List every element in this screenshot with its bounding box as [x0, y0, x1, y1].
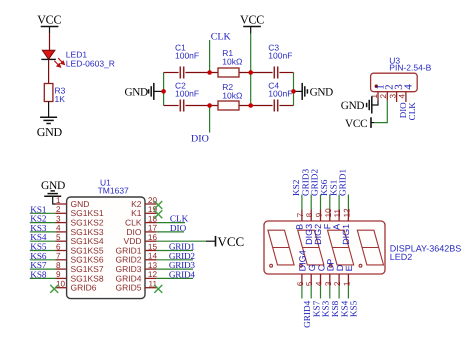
label R2 10kOhm [222, 82, 242, 101]
wire net KS8 (LED2 pin 3) [329, 286, 331, 299]
U1 pin 16 (VDD) stub [145, 240, 157, 242]
svg-text:DIG1: DIG1 [341, 224, 351, 245]
wire U1 pin1 to ground [53, 196, 56, 204]
svg-text:GND: GND [37, 125, 63, 139]
label U1 TM1637 [98, 177, 129, 195]
wire U3 pin1 to ground [372, 100, 378, 105]
7-segment digit 3 [328, 230, 354, 267]
svg-text:GRID5: GRID5 [116, 283, 142, 293]
ground (left of RC network) [149, 83, 154, 100]
wire net KS8 [30, 277, 56, 279]
capacitor C1 [180, 67, 183, 79]
svg-text:GRID4: GRID4 [169, 269, 195, 279]
svg-text:8: 8 [56, 261, 61, 270]
wire top rail seg2 [185, 72, 218, 74]
label LED1 [66, 50, 115, 69]
connector U3 body [371, 73, 418, 92]
ground (U3) [367, 97, 372, 114]
wire net CLK (U1 pin18) [157, 222, 185, 224]
U3 pin 2 stub [386, 92, 388, 101]
svg-text:GND: GND [310, 86, 334, 98]
svg-text:6: 6 [56, 242, 61, 251]
LED LED1 [41, 50, 64, 67]
svg-text:8: 8 [305, 212, 314, 217]
ground (right of RC network) [302, 83, 307, 100]
svg-text:GND: GND [341, 100, 365, 112]
svg-text:GRID1: GRID1 [338, 169, 348, 196]
svg-text:2: 2 [333, 281, 342, 286]
svg-text:16: 16 [148, 233, 158, 242]
wire net KS6 (LED2 pin 10) [329, 195, 331, 210]
junction VCC/bottom rail [248, 103, 253, 108]
U3 pin-1 marker dot [375, 85, 378, 88]
label C3 100nF [268, 42, 292, 60]
7-segment digit 4 [357, 230, 383, 267]
wire R3 to ground [48, 102, 50, 118]
U1 pin 3 (SG1KS2) stub [56, 222, 67, 224]
wire bottom rail seg3 [239, 105, 273, 107]
svg-text:100nF: 100nF [175, 50, 199, 60]
U1 pin 14 (GRID2) stub [145, 259, 157, 261]
wire U1 VDD to VCC (green) [157, 240, 206, 242]
wire top rail seg4 [279, 72, 293, 74]
U1 pin 12 (GRID4) stub [145, 277, 157, 279]
7-segment digit 2 [298, 230, 324, 267]
label C2 100nF [175, 81, 199, 99]
svg-text:LED-0603_R: LED-0603_R [66, 59, 115, 69]
label R1 10kOhm [222, 48, 242, 67]
no-connect U1 pin 10 [50, 285, 58, 293]
resistor R3 [44, 84, 53, 102]
wire net KS4 (LED2 pin 2) [338, 286, 340, 299]
label C4 100nF [268, 81, 292, 99]
svg-text:LED2: LED2 [390, 252, 413, 262]
wire net GRID3 (LED2 pin 8) [310, 195, 312, 210]
wire net GRID2 (LED2 pin 9) [320, 195, 322, 210]
svg-text:10kΩ: 10kΩ [222, 90, 242, 100]
label U3 PIN-2.54-B [389, 55, 431, 72]
svg-text:13: 13 [148, 261, 158, 270]
junction left edge/ground [161, 89, 166, 94]
svg-text:1: 1 [342, 281, 351, 286]
wire net GRID1 (LED2 pin 12) [347, 195, 349, 210]
U3 pin 3 stub [396, 92, 398, 102]
svg-text:VCC: VCC [345, 118, 367, 130]
U1 pin 6 (SG1KS5) stub [56, 250, 67, 252]
wire net KS7 [30, 268, 56, 270]
capacitor C2 [180, 100, 183, 112]
wire net KS3 [30, 231, 56, 233]
U1 pin 20 (K2) stub [145, 203, 157, 205]
wire net KS3 (LED2 pin 4) [320, 286, 322, 299]
svg-text:PIN-2.54-B: PIN-2.54-B [389, 63, 431, 73]
wire CLK vertical (green) [209, 40, 211, 73]
power VCC (U3) [371, 117, 374, 128]
U1 pin 7 (SG1KS6) stub [56, 259, 67, 261]
svg-text:DIO: DIO [170, 223, 187, 233]
display LED2 body [264, 221, 385, 274]
svg-text:17: 17 [148, 224, 158, 233]
label DISPLAY-3642BS LED2 [390, 244, 462, 263]
LED2 pin 5 stub (bottom) [310, 274, 312, 286]
LED2 pin 10 stub (top) [329, 210, 331, 222]
label R3 1K [55, 86, 66, 105]
LED2 pin 2 stub (bottom) [338, 274, 340, 286]
wire DIO vertical (green) [209, 106, 211, 133]
wire net KS4 [30, 240, 56, 242]
wire U3 pin2 to VCC (green) [374, 100, 387, 122]
no-connect U1 pin 20 [154, 201, 162, 209]
U1 pin 17 (DIO) stub [145, 231, 157, 233]
svg-text:KS5: KS5 [349, 300, 359, 317]
no-connect U1 pin 11 [154, 285, 162, 293]
svg-text:14: 14 [148, 252, 158, 261]
U1 pin 13 (GRID3) stub [145, 268, 157, 270]
ground (above U1) [44, 191, 61, 196]
svg-text:5: 5 [305, 281, 314, 286]
LED2 pin 7 stub (top) [301, 210, 303, 222]
label C1 100nF [175, 42, 199, 60]
U1 pin 10 (GRID6) stub [56, 287, 67, 289]
svg-text:VCC: VCC [240, 13, 264, 27]
wire net KS5 (LED2 pin 1) [347, 286, 349, 299]
wire net DIO (U1 pin17) [157, 231, 184, 233]
7-segment digit 1 [268, 230, 294, 267]
svg-text:12: 12 [342, 208, 351, 218]
capacitor C3 [274, 67, 277, 79]
U1 pin 19 (K1) stub [145, 212, 157, 214]
svg-text:9: 9 [56, 270, 61, 279]
wire LED1 cathode to R3 [48, 59, 50, 83]
wire net KS1 [30, 212, 56, 214]
wire top rail seg3 [239, 72, 273, 74]
svg-text:1: 1 [56, 196, 61, 205]
junction VCC/top rail [248, 70, 253, 75]
wire net GRID2 [157, 259, 193, 261]
svg-text:10kΩ: 10kΩ [222, 56, 242, 66]
svg-text:6: 6 [296, 281, 305, 286]
svg-text:11: 11 [333, 208, 342, 217]
resistor R1 [218, 68, 239, 77]
wire net KS7 (LED2 pin 5) [310, 286, 312, 299]
svg-text:7: 7 [56, 252, 61, 261]
svg-text:100nF: 100nF [268, 89, 292, 99]
U3 pin 4 stub [405, 92, 407, 102]
svg-text:4: 4 [315, 281, 324, 286]
wire ground to left edge [154, 90, 164, 92]
ground (below R3) [40, 117, 57, 123]
svg-text:CLK: CLK [211, 31, 232, 42]
wire right edge (green) [293, 73, 295, 106]
svg-text:VCC: VCC [37, 13, 61, 27]
wire net KS5 [30, 250, 56, 252]
wire net KS6 [30, 259, 56, 261]
wire bottom rail seg2 [185, 105, 218, 107]
svg-text:3: 3 [56, 214, 61, 223]
wire net KS1 (LED2 pin 11) [338, 195, 340, 210]
LED2 pin 6 stub (bottom) [301, 274, 303, 286]
svg-text:3: 3 [324, 281, 333, 286]
U1 pin 18 (CLK) stub [145, 222, 157, 224]
LED2 pin 9 stub (top) [320, 210, 322, 222]
junction CLK/top rail [207, 70, 212, 75]
no-connect U1 pin 19 [154, 210, 162, 218]
U1 pin 2 (SG1KS1) stub [56, 212, 67, 214]
U1 pin 5 (SG1KS4) stub [56, 240, 67, 242]
svg-text:5: 5 [56, 233, 61, 242]
svg-text:10: 10 [56, 280, 66, 289]
svg-text:12: 12 [148, 270, 158, 279]
svg-text:VCC: VCC [218, 234, 245, 249]
svg-text:100nF: 100nF [268, 50, 292, 60]
wire net GRID4 [157, 277, 193, 279]
wire VCC to LED1 anode [49, 33, 51, 50]
svg-text:10: 10 [324, 208, 333, 218]
U1 pin 4 (SG1KS3) stub [56, 231, 67, 233]
svg-text:15: 15 [148, 242, 158, 251]
wire net KS2 (LED2 pin 7) [301, 195, 303, 210]
U1 pin 9 (SG1KS8) stub [56, 277, 67, 279]
wire net GRID1 [157, 250, 193, 252]
power VCC (top-left) [37, 13, 61, 34]
svg-text:4: 4 [402, 84, 414, 90]
svg-text:E: E [344, 265, 354, 271]
svg-text:7: 7 [296, 212, 305, 217]
svg-text:KS8: KS8 [30, 269, 47, 279]
wire VCC vertical (green) [250, 34, 252, 106]
svg-text:4: 4 [56, 224, 61, 233]
wire net GRID3 [157, 268, 193, 270]
U1 pin 15 (GRID1) stub [145, 250, 157, 252]
U3 pin 1 stub [377, 92, 379, 101]
junction right edge/ground [291, 89, 296, 94]
svg-text:TM1637: TM1637 [98, 185, 129, 195]
capacitor C4 [274, 100, 277, 112]
junction DIO/bottom rail [207, 103, 212, 108]
LED2 pin 3 stub (bottom) [329, 274, 331, 286]
svg-text:2: 2 [56, 205, 61, 214]
U1 pin 11 (GRID5) stub [145, 287, 157, 289]
U1 pin 1 (GND) stub [56, 203, 67, 205]
LED2 pin 12 stub (top) [347, 210, 349, 222]
wire left edge (green) [163, 73, 165, 106]
wire bottom rail seg1 [164, 105, 179, 107]
LED2 pin 11 stub (top) [338, 210, 340, 222]
U1 pin 8 (SG1KS7) stub [56, 268, 67, 270]
wire right edge to ground [294, 90, 303, 92]
svg-text:GRID6: GRID6 [71, 283, 97, 293]
svg-text:100nF: 100nF [175, 89, 199, 99]
wire net KS2 [30, 222, 56, 224]
svg-text:9: 9 [315, 212, 324, 217]
resistor R2 [218, 101, 239, 110]
wire bottom rail seg4 [279, 105, 293, 107]
LED2 pin 4 stub (bottom) [320, 274, 322, 286]
svg-text:1K: 1K [55, 94, 66, 104]
IC U1 body [67, 197, 145, 299]
wire net GRID4 (LED2 pin 6) [301, 286, 303, 299]
power VCC (U1 VDD) [206, 236, 216, 247]
power VCC (top-centre) [240, 13, 264, 34]
svg-text:CLK: CLK [407, 102, 417, 121]
svg-text:GND: GND [125, 86, 149, 98]
svg-text:GND: GND [41, 180, 65, 192]
LED2 pin 8 stub (top) [310, 210, 312, 222]
svg-text:DIO: DIO [191, 134, 209, 145]
wire top rail seg1 [164, 72, 179, 74]
LED2 pin 1 stub (bottom) [347, 274, 349, 286]
